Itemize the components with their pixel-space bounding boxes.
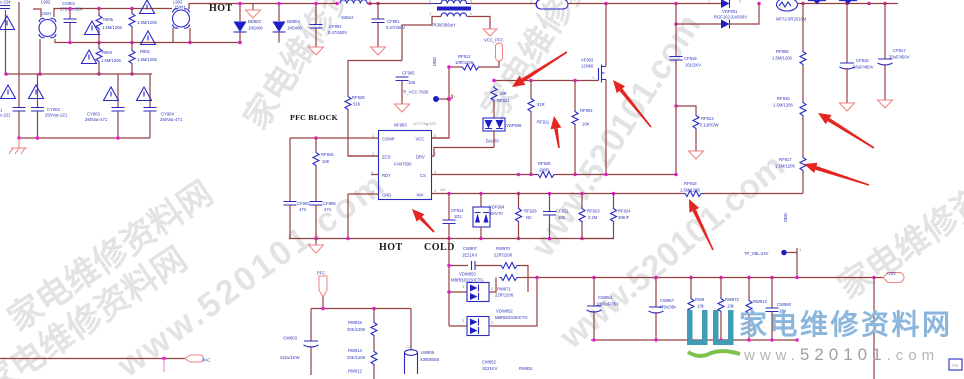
svg-text:10mH: 10mH bbox=[40, 11, 51, 16]
net flag +24V bbox=[883, 273, 904, 283]
diode VDW952 MBRB20150CTG bbox=[449, 278, 537, 336]
svg-text:U77/Trig/107: U77/Trig/107 bbox=[413, 121, 437, 126]
wire gate line bbox=[494, 80, 599, 82]
wire gate stub bbox=[598, 79, 600, 82]
resistor RF912 bbox=[461, 64, 480, 70]
svg-text:CF914: CF914 bbox=[451, 208, 464, 213]
test triangle CY903 bbox=[104, 87, 119, 101]
svg-text:NF903: NF903 bbox=[394, 123, 407, 128]
svg-text:CF902: CF902 bbox=[329, 24, 342, 29]
logo book icon bbox=[687, 310, 734, 345]
svg-text:TP_VCC-7930: TP_VCC-7930 bbox=[401, 90, 429, 95]
transformer TR901 core bbox=[437, 7, 471, 11]
wire RF912 left to node bbox=[449, 66, 461, 68]
junction dot RF913 tap bbox=[674, 104, 678, 108]
svg-text:RF928: RF928 bbox=[352, 95, 365, 100]
svg-text:1N5406: 1N5406 bbox=[287, 26, 302, 31]
svg-text:20K/1206: 20K/1206 bbox=[347, 355, 366, 360]
svg-text:DBD: DBD bbox=[432, 57, 437, 66]
resistor RW915 bbox=[371, 309, 377, 351]
svg-text:RW914: RW914 bbox=[348, 348, 363, 353]
resistor R904 bbox=[96, 43, 102, 75]
svg-text:RF925: RF925 bbox=[538, 161, 551, 166]
capacitor CY901 bbox=[13, 74, 26, 138]
test point TP_VBL-24V bbox=[781, 247, 802, 277]
test triangle T1 bbox=[0, 16, 15, 30]
resistor RF923 bbox=[579, 194, 585, 239]
capacitor CW907 bbox=[472, 261, 476, 270]
wire RW971 to +24V rail bbox=[519, 277, 529, 279]
wire L902 bottom-left pin bbox=[39, 39, 41, 74]
connector symbol J2 bbox=[839, 1, 857, 5]
wire TR901 sec right pin to VCC_PFC flag bbox=[467, 17, 490, 30]
svg-text:CW957: CW957 bbox=[660, 298, 675, 303]
svg-text:RW971: RW971 bbox=[497, 287, 512, 292]
net flag pill VCC bbox=[496, 43, 503, 61]
resistor RW971 bbox=[500, 275, 519, 281]
svg-text:RF904: RF904 bbox=[580, 108, 593, 113]
svg-text:AD: AD bbox=[440, 187, 446, 192]
annotation arrow 6 bbox=[412, 209, 435, 233]
wire ZCD line bbox=[348, 155, 379, 157]
capacitor CW954 bbox=[587, 278, 602, 341]
diode BD903 bbox=[234, 4, 247, 43]
svg-text:RW951: RW951 bbox=[519, 366, 534, 371]
junction dots PFC line bbox=[321, 307, 376, 311]
wire DRV pin bbox=[432, 148, 495, 157]
svg-text:TP_VBL-24V: TP_VBL-24V bbox=[744, 251, 769, 256]
junction dots gate line bbox=[492, 79, 577, 83]
svg-text:HOT: HOT bbox=[379, 242, 403, 253]
transformer TR901 primary winding bbox=[430, 0, 478, 4]
svg-text:MBRB20150CTG: MBRB20150CTG bbox=[495, 315, 528, 320]
svg-text:COMP: COMP bbox=[382, 137, 395, 142]
svg-text:2.2M: 2.2M bbox=[588, 215, 598, 220]
resistor RF915 bbox=[800, 101, 806, 156]
wire snubber to right rail bbox=[519, 266, 529, 293]
svg-text:R904: R904 bbox=[102, 50, 113, 55]
revision box bottom-right bbox=[949, 359, 962, 370]
svg-text:X3600556: X3600556 bbox=[420, 357, 440, 362]
svg-text:0.47/450V: 0.47/450V bbox=[328, 30, 347, 35]
capacitor CF901 bbox=[371, 4, 386, 56]
annotation arrow 2 bbox=[613, 80, 652, 128]
junction dots earth bus bbox=[17, 136, 120, 140]
svg-text:1000uF/35V: 1000uF/35V bbox=[596, 302, 619, 307]
resistor RW913 bbox=[746, 278, 752, 341]
junction dots INV line bbox=[447, 192, 615, 196]
svg-text:LW909: LW909 bbox=[421, 350, 435, 355]
svg-text:GND: GND bbox=[382, 193, 391, 198]
svg-text:10R/1206: 10R/1206 bbox=[455, 60, 474, 65]
svg-text:RW915: RW915 bbox=[348, 320, 363, 325]
junction dots +24V bus bbox=[535, 276, 876, 280]
junction dot VAC bbox=[162, 357, 166, 361]
svg-text:C4: C4 bbox=[406, 344, 412, 349]
svg-text:0.12R/2W: 0.12R/2W bbox=[700, 123, 719, 128]
resistor RF925 bbox=[537, 172, 556, 178]
svg-text:MBRB20150CTG: MBRB20150CTG bbox=[451, 278, 484, 283]
svg-text:1N5406: 1N5406 bbox=[248, 26, 263, 31]
svg-text:RF915: RF915 bbox=[777, 96, 790, 101]
inductor L902 common-mode choke bbox=[39, 18, 56, 37]
capacitor CF914 bbox=[443, 194, 456, 239]
svg-text:1.5M/1206: 1.5M/1206 bbox=[680, 188, 700, 193]
thermistor MF72 bbox=[777, 0, 798, 11]
svg-text:www.520101.com: www.520101.com bbox=[743, 345, 939, 364]
svg-text:1E21KV: 1E21KV bbox=[462, 253, 478, 258]
svg-text:VDF904: VDF904 bbox=[489, 205, 505, 210]
svg-text:RF913: RF913 bbox=[701, 116, 714, 121]
wire VCC pin bbox=[432, 137, 450, 139]
wire AC input line N bbox=[18, 2, 20, 74]
inductor L903 common-mode choke bbox=[173, 9, 190, 28]
svg-text:RF908: RF908 bbox=[776, 49, 789, 54]
svg-text:22R/1206: 22R/1206 bbox=[495, 293, 514, 298]
svg-text:CW903: CW903 bbox=[283, 336, 298, 341]
svg-text:ZCD: ZCD bbox=[382, 155, 391, 160]
svg-text:VDW953: VDW953 bbox=[459, 272, 476, 277]
capacitor CF905 bbox=[395, 77, 410, 112]
svg-text:101/2KV: 101/2KV bbox=[685, 63, 701, 68]
svg-text:180R: 180R bbox=[539, 168, 549, 173]
svg-text:L902: L902 bbox=[41, 0, 51, 5]
net flag PFC bbox=[319, 276, 327, 297]
capacitor CF911 bbox=[543, 194, 556, 239]
svg-text:CY904: CY904 bbox=[161, 112, 174, 117]
test triangle CY904 bbox=[137, 87, 152, 101]
svg-text:RF912: RF912 bbox=[458, 54, 471, 59]
transformer TR901 secondary winding bbox=[441, 13, 467, 17]
wire HOT top bus y3.5 bbox=[240, 3, 337, 5]
wire +24V down rail bbox=[873, 278, 875, 379]
capacitor CY902 bbox=[31, 74, 44, 138]
svg-text:58uF/450V: 58uF/450V bbox=[853, 65, 874, 70]
svg-text:39K/F: 39K/F bbox=[618, 215, 630, 220]
svg-text:51K: 51K bbox=[353, 102, 361, 107]
svg-text:CF905: CF905 bbox=[402, 71, 415, 76]
svg-text:1.5M/1206: 1.5M/1206 bbox=[772, 56, 792, 61]
svg-text:13k: 13k bbox=[727, 304, 735, 309]
svg-text:20K/1206: 20K/1206 bbox=[347, 327, 366, 332]
svg-text:PFC BLOCK: PFC BLOCK bbox=[290, 113, 338, 122]
svg-text:180uH: 180uH bbox=[341, 15, 353, 20]
wire L902 bottom-right pin to line B bbox=[55, 39, 240, 43]
wire snubber top line bbox=[449, 265, 468, 267]
svg-text:c-224: c-224 bbox=[0, 0, 11, 5]
wire PFC bottom line bbox=[311, 308, 411, 310]
test triangle R905 bbox=[85, 21, 100, 35]
test triangle R903 bbox=[140, 0, 155, 14]
svg-text:474: 474 bbox=[324, 207, 332, 212]
svg-text:BAV70: BAV70 bbox=[486, 139, 499, 144]
svg-text:VDF906: VDF906 bbox=[506, 123, 522, 128]
watermark diagonal text 6 bbox=[831, 142, 964, 307]
capacitor CF916 bbox=[840, 4, 855, 112]
resistor RF911 51R bbox=[528, 81, 534, 175]
junction dots CS bus bbox=[517, 173, 678, 177]
capacitor CY903 bbox=[112, 74, 125, 138]
wire TR901 sec left pin to CF905 column bbox=[402, 17, 441, 61]
logo book pages bbox=[688, 351, 740, 356]
svg-text:R901: R901 bbox=[140, 49, 151, 54]
watermark diagonal text 8 bbox=[475, 0, 636, 126]
capacitor CF908 bbox=[310, 202, 323, 239]
svg-text:1.5M/1206: 1.5M/1206 bbox=[137, 57, 157, 62]
wire VF903 source to CS bus bbox=[605, 80, 607, 175]
wire VCC column down bbox=[432, 67, 450, 138]
svg-text:CW952: CW952 bbox=[482, 360, 497, 365]
resistor RF928NC bbox=[516, 194, 522, 239]
diode VDF906 BAV70 bbox=[483, 118, 505, 148]
svg-text:RDY: RDY bbox=[382, 173, 391, 178]
wire top bus to fuse bbox=[470, 3, 536, 5]
svg-text:RW972: RW972 bbox=[725, 297, 740, 302]
junction dots ground bus bbox=[314, 237, 584, 241]
svg-text:DBD: DBD bbox=[783, 213, 788, 222]
svg-text:VDW952: VDW952 bbox=[496, 309, 513, 314]
wire VF903 drain column bbox=[605, 4, 607, 67]
svg-text:RF921: RF921 bbox=[497, 98, 510, 103]
svg-text:10R: 10R bbox=[499, 91, 507, 96]
svg-text:RF918: RF918 bbox=[684, 181, 697, 186]
test triangle CY901 bbox=[1, 85, 16, 99]
resistor RW972 bbox=[718, 278, 724, 341]
svg-text:VAC: VAC bbox=[202, 358, 210, 363]
svg-text:CW907: CW907 bbox=[463, 246, 478, 251]
wire top bus far right bbox=[797, 3, 898, 5]
svg-text:1.5M/1206: 1.5M/1206 bbox=[775, 164, 795, 169]
wire INV line to RF917 bbox=[703, 193, 804, 195]
svg-text:470u/35v: 470u/35v bbox=[659, 305, 677, 310]
earth ground symbol bbox=[9, 138, 27, 154]
svg-text:CY902: CY902 bbox=[47, 107, 60, 112]
svg-text:22R/1206: 22R/1206 bbox=[494, 253, 513, 258]
svg-text:CF916: CF916 bbox=[856, 58, 869, 63]
resistor RF918 bbox=[684, 191, 703, 197]
svg-text:RW970: RW970 bbox=[496, 246, 511, 251]
wire COMP line bbox=[290, 137, 379, 139]
capacitor CX902 bbox=[64, 9, 77, 43]
wire L903 bottom-right pin bbox=[189, 28, 191, 43]
wire L902 top-left pin bbox=[33, 9, 41, 17]
svg-text:VF903: VF903 bbox=[581, 58, 594, 63]
svg-text:HOT: HOT bbox=[209, 3, 233, 14]
wire L902 top-right pin to line A bbox=[54, 9, 172, 18]
svg-text:J7B: J7B bbox=[951, 363, 958, 368]
junction dots EMI bbox=[4, 7, 242, 76]
annotation arrow 3 bbox=[551, 116, 562, 148]
svg-text:BD903: BD903 bbox=[248, 19, 261, 24]
diode VDF904 BAV70 bbox=[473, 194, 490, 239]
wire neutral bus y74 bbox=[6, 73, 153, 75]
svg-text:MF72-5R2010M: MF72-5R2010M bbox=[776, 17, 807, 22]
op-amp IC NF903 FAN7930 box bbox=[379, 131, 432, 200]
svg-text:RF923: RF923 bbox=[587, 209, 600, 214]
svg-text:INV: INV bbox=[417, 193, 424, 198]
svg-text:R905: R905 bbox=[103, 17, 114, 22]
capacitor CX901 (edge) bbox=[0, 6, 10, 9]
svg-text:RW9: RW9 bbox=[695, 297, 705, 302]
svg-text:DRV: DRV bbox=[416, 155, 425, 160]
capacitor CF902 bbox=[309, 4, 324, 56]
svg-text:CY903: CY903 bbox=[87, 112, 100, 117]
svg-text:222u/1KW: 222u/1KW bbox=[280, 355, 300, 360]
svg-text:BAV70: BAV70 bbox=[490, 211, 503, 216]
junction dot COMP bbox=[314, 136, 318, 140]
junction dots top bus left bbox=[238, 2, 380, 6]
watermark diagonal text 2 bbox=[110, 164, 394, 379]
svg-text:RF916: RF916 bbox=[321, 152, 334, 157]
svg-text:33uF/450V: 33uF/450V bbox=[889, 55, 910, 60]
fuse F901 pill bbox=[536, 0, 568, 9]
resistor RF921 bbox=[491, 86, 497, 118]
svg-text:RF917: RF917 bbox=[779, 157, 792, 162]
junction dots return bus bbox=[592, 338, 799, 342]
test triangle R901 bbox=[141, 31, 156, 45]
diode VDW953 MBRB20150CTG bbox=[449, 278, 496, 302]
svg-text:RF924: RF924 bbox=[618, 209, 631, 214]
wire AC input line L bbox=[5, 10, 7, 74]
svg-text:c-221: c-221 bbox=[0, 113, 11, 118]
diode VDF901b bbox=[676, 4, 759, 29]
svg-text:1.5M/1206: 1.5M/1206 bbox=[102, 25, 122, 30]
svg-text:CF911: CF911 bbox=[556, 209, 569, 214]
svg-text:RW913: RW913 bbox=[753, 299, 768, 304]
svg-text:VCC: VCC bbox=[416, 137, 425, 142]
svg-text:250Vac-471: 250Vac-471 bbox=[85, 117, 108, 122]
svg-text:+24V: +24V bbox=[886, 271, 896, 276]
svg-text:.105: .105 bbox=[407, 80, 416, 85]
junction dots top bus right bbox=[604, 2, 887, 26]
wire PFC flag to line bbox=[322, 297, 324, 309]
svg-text:CS: CS bbox=[420, 173, 426, 178]
watermark diagonal text 4 bbox=[523, 8, 708, 265]
wire L903 top-right pin to HOT bus bbox=[189, 4, 240, 10]
watermark diagonal text 7 bbox=[0, 240, 194, 379]
svg-text:COLD: COLD bbox=[424, 242, 455, 253]
resistor RF908 bbox=[800, 4, 806, 102]
wire GND line bbox=[348, 194, 379, 239]
capacitor CY904 bbox=[144, 74, 157, 138]
inductor LW909 bbox=[405, 309, 418, 375]
wire top bus fuse to right bbox=[568, 3, 721, 5]
wire +24V bus bbox=[528, 277, 883, 279]
annotation arrow 7 bbox=[689, 199, 714, 250]
wire top bus after L901 bbox=[367, 3, 430, 5]
test triangle CY902 bbox=[29, 85, 44, 99]
svg-text:1E21KV: 1E21KV bbox=[482, 366, 498, 371]
capacitor CW960 bbox=[766, 278, 779, 341]
diode VDF901a bbox=[721, 0, 730, 8]
ground symbol main bbox=[309, 239, 324, 254]
wire VAC stub magenta bbox=[163, 359, 165, 373]
svg-text:家电维修资料网: 家电维修资料网 bbox=[739, 308, 953, 340]
svg-text:CF901: CF901 bbox=[387, 19, 400, 24]
svg-text:10K: 10K bbox=[322, 159, 330, 164]
svg-text:RF928: RF928 bbox=[524, 209, 537, 214]
wire snubber mid bbox=[475, 265, 500, 267]
resistor R901 bbox=[129, 43, 135, 75]
svg-text:250Vac-221: 250Vac-221 bbox=[45, 113, 68, 118]
junction dots VCC column bbox=[447, 65, 451, 101]
wire output return bus bbox=[591, 339, 797, 341]
svg-text:13k: 13k bbox=[697, 304, 705, 309]
svg-text:CF908: CF908 bbox=[323, 201, 336, 206]
resistor RF916 bbox=[313, 138, 319, 202]
svg-text:1.5M/1206: 1.5M/1206 bbox=[773, 103, 793, 108]
resistor R905 bbox=[96, 9, 102, 43]
test point TP_VCC-7930 bbox=[433, 94, 457, 102]
svg-text:473: 473 bbox=[299, 207, 307, 212]
svg-text:1D1: 1D1 bbox=[454, 214, 462, 219]
capacitor CW903 bbox=[304, 309, 319, 376]
wire VAC line bbox=[0, 358, 185, 360]
wire CS pin to bus bbox=[432, 174, 538, 176]
wire INV line bbox=[432, 193, 685, 195]
svg-text:51R: 51R bbox=[537, 102, 545, 107]
resistor RF924 bbox=[582, 194, 617, 239]
wire rectifier left rail bbox=[448, 239, 450, 327]
resistor RW975 bbox=[688, 278, 694, 341]
svg-text:15mH: 15mH bbox=[174, 4, 185, 9]
svg-text:102: 102 bbox=[558, 215, 566, 220]
annotation arrow 1 bbox=[512, 51, 567, 87]
wire L903 bottom-left pin bbox=[172, 28, 174, 43]
svg-text:VCC_PFC: VCC_PFC bbox=[484, 38, 504, 43]
wire CS bus right bbox=[556, 174, 677, 176]
svg-text:10K: 10K bbox=[582, 122, 590, 127]
resistor R903 bbox=[129, 9, 135, 43]
wire earth bus y138 bbox=[18, 137, 150, 139]
junction dots rectifier rail bbox=[447, 264, 451, 294]
svg-text:CF917: CF917 bbox=[893, 48, 906, 53]
svg-text:CX902: CX902 bbox=[62, 1, 75, 6]
net flag VCC_PFC bbox=[483, 29, 497, 36]
capacitor CW957 bbox=[649, 278, 664, 341]
resistor RW970 zigzag bbox=[500, 263, 519, 269]
resistor RF904 bbox=[572, 81, 578, 175]
svg-text:NC: NC bbox=[526, 215, 532, 220]
watermark diagonal text 3 bbox=[237, 0, 398, 136]
svg-text:1.5M/1206: 1.5M/1206 bbox=[101, 58, 121, 63]
svg-text:CF903: CF903 bbox=[297, 201, 310, 206]
resistor RF913 bbox=[676, 106, 704, 159]
resistor RF917 bbox=[800, 156, 806, 194]
svg-text:CW954: CW954 bbox=[598, 295, 613, 300]
svg-text:RGF10J-3A/600V: RGF10J-3A/600V bbox=[714, 15, 747, 20]
svg-text:1.5M/1206: 1.5M/1206 bbox=[137, 20, 157, 25]
watermark diagonal text 5 bbox=[552, 147, 792, 357]
svg-text:RW912: RW912 bbox=[348, 369, 363, 374]
svg-text:CF919: CF919 bbox=[684, 56, 697, 61]
capacitor CF919 bbox=[670, 24, 683, 175]
inductor L901 180uH bbox=[340, 0, 367, 3]
svg-text:CW960: CW960 bbox=[777, 302, 792, 307]
svg-text:FAN7930: FAN7930 bbox=[394, 162, 412, 167]
diode BD904 bbox=[273, 4, 286, 43]
capacitor CF917 bbox=[878, 4, 893, 109]
capacitor CF903 bbox=[284, 138, 297, 239]
svg-text:VDF901: VDF901 bbox=[722, 9, 738, 14]
connector symbol J1 bbox=[808, 1, 826, 5]
test triangle R904 bbox=[82, 50, 97, 64]
svg-text:12N60: 12N60 bbox=[581, 64, 594, 69]
resistor RF928 51K bbox=[345, 95, 379, 156]
transistor VF903 MOSFET bbox=[599, 65, 607, 83]
ground stub between diodes bbox=[246, 4, 261, 19]
wire pill to RF912 line bbox=[479, 61, 499, 67]
